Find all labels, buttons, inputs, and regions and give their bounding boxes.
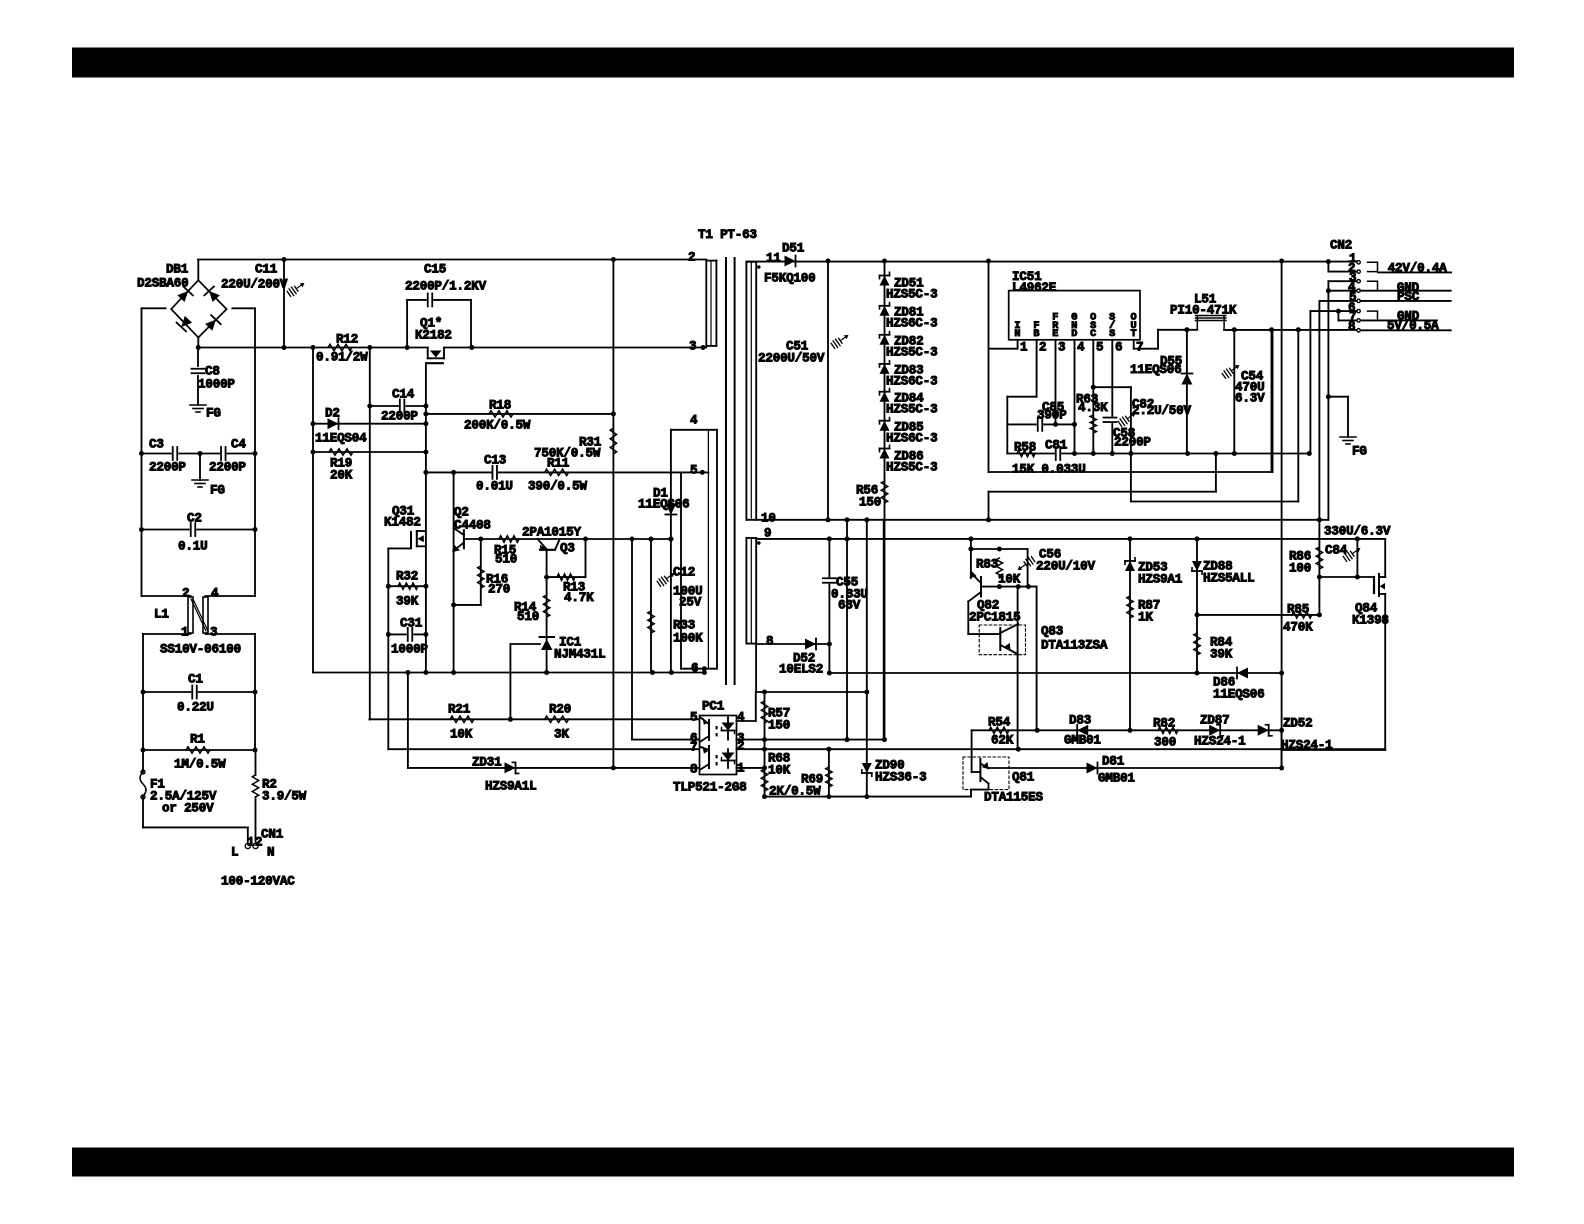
svg-text:510: 510 — [517, 610, 539, 624]
svg-text:OSC: OSC — [1090, 313, 1096, 340]
svg-text:11: 11 — [766, 251, 781, 265]
svg-text:GMB01: GMB01 — [1098, 771, 1135, 785]
svg-text:FG: FG — [206, 406, 221, 420]
svg-text:9: 9 — [764, 526, 771, 540]
svg-text:2200P: 2200P — [209, 460, 246, 474]
svg-text:C3: C3 — [149, 437, 164, 451]
svg-text:GND: GND — [1071, 313, 1077, 340]
svg-text:15K 0.033U: 15K 0.033U — [1012, 462, 1086, 476]
svg-text:N: N — [267, 845, 274, 859]
svg-text:ZD87: ZD87 — [1200, 713, 1229, 727]
svg-text:3: 3 — [689, 339, 696, 353]
svg-text:8: 8 — [690, 762, 697, 776]
svg-text:HZS5ALL: HZS5ALL — [1203, 571, 1255, 585]
svg-text:R12: R12 — [336, 332, 358, 346]
svg-text:D81: D81 — [1102, 754, 1125, 768]
svg-text:10K: 10K — [450, 727, 473, 741]
svg-text:C12: C12 — [673, 565, 695, 579]
svg-text:150: 150 — [768, 718, 790, 732]
svg-text:T1 PT-63: T1 PT-63 — [698, 228, 757, 242]
svg-text:D2SBA60: D2SBA60 — [137, 276, 189, 290]
svg-text:2200U/50V: 2200U/50V — [758, 351, 825, 365]
svg-text:L1: L1 — [154, 607, 169, 621]
svg-text:510: 510 — [495, 552, 517, 566]
svg-text:2: 2 — [1039, 340, 1046, 354]
svg-text:K1398: K1398 — [1352, 613, 1389, 627]
svg-text:S/S: S/S — [1109, 313, 1115, 340]
svg-text:HZS5C-3: HZS5C-3 — [886, 402, 938, 416]
svg-text:300: 300 — [1154, 735, 1176, 749]
svg-text:330U/6.3V: 330U/6.3V — [1324, 524, 1391, 538]
svg-text:HZS24-1: HZS24-1 — [1194, 734, 1246, 748]
svg-text:R54: R54 — [988, 715, 1011, 729]
svg-text:7: 7 — [1136, 340, 1143, 354]
svg-text:11EQS06: 11EQS06 — [1213, 687, 1265, 701]
svg-text:HZS6C-3: HZS6C-3 — [886, 316, 938, 330]
svg-text:CN2: CN2 — [1330, 238, 1352, 252]
svg-text:or 250V: or 250V — [162, 801, 214, 815]
svg-text:6.3V: 6.3V — [1235, 391, 1265, 405]
svg-text:HZS24-1: HZS24-1 — [1281, 738, 1333, 752]
svg-text:C11: C11 — [255, 262, 278, 276]
svg-text:2K/0.5W: 2K/0.5W — [769, 784, 821, 798]
svg-text:C1: C1 — [188, 672, 203, 686]
svg-text:C14: C14 — [392, 387, 415, 401]
svg-text:1: 1 — [247, 835, 255, 849]
svg-text:39K: 39K — [1210, 647, 1233, 661]
svg-text:HZS5C-3: HZS5C-3 — [886, 287, 938, 301]
svg-text:C2: C2 — [187, 511, 202, 525]
svg-text:200K/0.5W: 200K/0.5W — [464, 418, 531, 432]
svg-text:0.91/2W: 0.91/2W — [316, 350, 368, 364]
svg-text:2.2U/50V: 2.2U/50V — [1132, 404, 1192, 418]
svg-text:10ELS2: 10ELS2 — [779, 662, 823, 676]
svg-text:150: 150 — [859, 495, 881, 509]
svg-text:1: 1 — [181, 625, 189, 639]
svg-text:1K: 1K — [1138, 610, 1153, 624]
svg-text:5: 5 — [690, 710, 697, 724]
svg-text:3: 3 — [1058, 340, 1065, 354]
svg-text:FB: FB — [1033, 321, 1039, 340]
svg-text:2200P/1.2KV: 2200P/1.2KV — [405, 279, 487, 293]
svg-text:C31: C31 — [400, 616, 423, 630]
svg-text:C8: C8 — [205, 364, 220, 378]
svg-text:63V: 63V — [838, 598, 861, 612]
svg-text:2PA1015Y: 2PA1015Y — [522, 525, 582, 539]
svg-text:220U/200V: 220U/200V — [221, 277, 288, 291]
svg-text:IN: IN — [1014, 321, 1020, 340]
svg-text:4: 4 — [737, 710, 745, 724]
svg-text:42V/0.4A: 42V/0.4A — [1388, 262, 1448, 276]
svg-text:HZS9A1L: HZS9A1L — [485, 779, 537, 793]
svg-text:K1482: K1482 — [384, 515, 421, 529]
svg-text:HZS9A1: HZS9A1 — [1138, 572, 1183, 586]
svg-text:1000P: 1000P — [391, 642, 428, 656]
svg-text:PI10-471K: PI10-471K — [1170, 303, 1237, 317]
svg-text:F5KQ100: F5KQ100 — [764, 271, 816, 285]
svg-text:C15: C15 — [424, 262, 446, 276]
svg-text:NJM431L: NJM431L — [554, 647, 606, 661]
svg-text:GMB01: GMB01 — [1064, 733, 1101, 747]
svg-text:270: 270 — [488, 582, 510, 596]
svg-text:L: L — [231, 845, 238, 859]
svg-text:0.01U: 0.01U — [476, 479, 513, 493]
svg-text:3: 3 — [210, 625, 217, 639]
svg-text:Q2: Q2 — [454, 505, 469, 519]
svg-text:62K: 62K — [991, 733, 1014, 747]
svg-text:3.9/5W: 3.9/5W — [262, 789, 307, 803]
svg-text:C4408: C4408 — [454, 518, 491, 532]
svg-text:2PC1815: 2PC1815 — [969, 610, 1021, 624]
svg-text:2: 2 — [182, 586, 189, 600]
svg-text:TLP521-2G8: TLP521-2G8 — [673, 780, 747, 794]
svg-text:K2182: K2182 — [415, 328, 452, 342]
svg-text:HZS5C-3: HZS5C-3 — [886, 345, 938, 359]
svg-text:FG: FG — [210, 483, 225, 497]
svg-text:0.22U: 0.22U — [177, 700, 214, 714]
svg-text:2200P: 2200P — [1114, 435, 1151, 449]
svg-text:10K: 10K — [998, 572, 1021, 586]
svg-text:1M/0.5W: 1M/0.5W — [174, 757, 226, 771]
svg-text:R11: R11 — [547, 456, 570, 470]
svg-text:C13: C13 — [484, 453, 506, 467]
svg-text:220U/10V: 220U/10V — [1036, 559, 1096, 573]
svg-text:HZS6C-3: HZS6C-3 — [886, 374, 938, 388]
svg-text:100-120VAC: 100-120VAC — [221, 874, 295, 888]
svg-text:D2: D2 — [325, 406, 340, 420]
svg-text:25V: 25V — [679, 595, 702, 609]
svg-text:6: 6 — [1115, 340, 1122, 354]
svg-text:R85: R85 — [1287, 602, 1309, 616]
svg-text:3K: 3K — [554, 727, 569, 741]
svg-text:C84: C84 — [1325, 543, 1348, 557]
svg-text:2: 2 — [255, 835, 262, 849]
svg-text:1: 1 — [737, 761, 745, 775]
svg-text:4: 4 — [690, 413, 698, 427]
svg-text:2: 2 — [737, 739, 744, 753]
svg-text:10K: 10K — [768, 763, 791, 777]
svg-text:R21: R21 — [448, 702, 471, 716]
svg-text:6: 6 — [691, 661, 698, 675]
svg-text:0.1U: 0.1U — [178, 539, 207, 553]
svg-text:D83: D83 — [1069, 713, 1091, 727]
svg-text:R82: R82 — [1153, 716, 1175, 730]
svg-text:DTA115ES: DTA115ES — [984, 790, 1044, 804]
svg-text:8: 8 — [1348, 320, 1355, 334]
svg-text:20K: 20K — [330, 468, 353, 482]
svg-text:Q83: Q83 — [1041, 624, 1063, 638]
svg-text:PSC: PSC — [1397, 290, 1420, 304]
svg-text:4: 4 — [211, 586, 219, 600]
svg-text:2: 2 — [688, 250, 695, 264]
svg-text:100K: 100K — [673, 631, 703, 645]
svg-text:C81: C81 — [1045, 438, 1068, 452]
svg-text:7: 7 — [690, 740, 697, 754]
svg-text:ZD52: ZD52 — [1283, 716, 1312, 730]
svg-text:CN1: CN1 — [261, 827, 284, 841]
svg-text:5: 5 — [1096, 340, 1103, 354]
svg-text:Q3: Q3 — [560, 541, 575, 555]
svg-text:R20: R20 — [549, 702, 571, 716]
svg-text:HZS36-3: HZS36-3 — [875, 770, 927, 784]
svg-text:1000P: 1000P — [198, 377, 235, 391]
svg-text:39K: 39K — [396, 594, 419, 608]
svg-text:1: 1 — [1020, 340, 1028, 354]
svg-text:2200P: 2200P — [381, 409, 418, 423]
svg-text:470K: 470K — [1283, 620, 1313, 634]
svg-text:11EQS06: 11EQS06 — [638, 497, 690, 511]
svg-text:R18: R18 — [489, 398, 511, 412]
svg-text:DTA113ZSA: DTA113ZSA — [1041, 638, 1108, 652]
svg-text:C4: C4 — [231, 437, 246, 451]
svg-text:Q81: Q81 — [1012, 770, 1035, 784]
svg-text:4.3K: 4.3K — [1078, 401, 1108, 415]
svg-text:R58: R58 — [1014, 440, 1036, 454]
svg-text:10: 10 — [761, 511, 776, 525]
svg-text:11EQS04: 11EQS04 — [315, 431, 367, 445]
svg-text:L4962E: L4962E — [1012, 281, 1057, 295]
svg-text:390P: 390P — [1037, 408, 1067, 422]
svg-text:R33: R33 — [673, 618, 695, 632]
svg-text:8: 8 — [766, 634, 773, 648]
svg-text:SS10V-06100: SS10V-06100 — [160, 642, 241, 656]
svg-text:FG: FG — [1352, 444, 1367, 458]
svg-text:100: 100 — [1289, 561, 1311, 575]
svg-text:HZS6C-3: HZS6C-3 — [886, 431, 938, 445]
svg-text:R83: R83 — [976, 557, 998, 571]
svg-text:PC1: PC1 — [702, 699, 725, 713]
svg-text:OUT: OUT — [1131, 313, 1137, 340]
svg-text:4: 4 — [1077, 340, 1085, 354]
svg-text:4.7K: 4.7K — [564, 591, 594, 605]
svg-text:DB1: DB1 — [166, 262, 189, 276]
svg-text:R1: R1 — [190, 732, 205, 746]
svg-text:D51: D51 — [782, 241, 805, 255]
svg-text:390/0.5W: 390/0.5W — [528, 479, 588, 493]
svg-text:11EQS06: 11EQS06 — [1130, 363, 1182, 377]
svg-text:HZS5C-3: HZS5C-3 — [886, 460, 938, 474]
svg-text:R32: R32 — [396, 569, 418, 583]
svg-text:5V/0.5A: 5V/0.5A — [1387, 319, 1439, 333]
svg-text:5: 5 — [690, 463, 697, 477]
svg-text:ZD31: ZD31 — [472, 755, 502, 769]
svg-text:2200P: 2200P — [149, 460, 186, 474]
